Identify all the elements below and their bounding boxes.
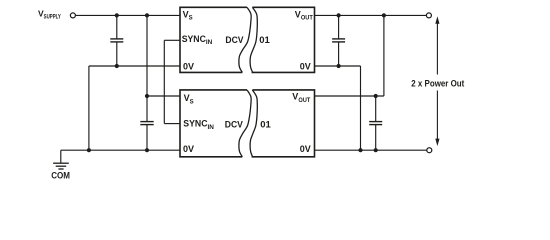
- capacitor C3: [332, 15, 345, 66]
- node Vs2-C2: [145, 94, 149, 98]
- svg-text:01: 01: [260, 119, 271, 130]
- module U2 outline: [180, 90, 315, 157]
- module U2 break: [239, 90, 257, 157]
- node Vout-C3: [337, 13, 341, 17]
- svg-text:01: 01: [259, 35, 270, 46]
- svg-text:2 x Power Out: 2 x Power Out: [411, 79, 464, 89]
- wire U2 Vout link: [315, 15, 384, 96]
- wire Vout rail: [315, 14, 427, 16]
- node Vout2-C4: [374, 94, 378, 98]
- capacitor C2: [140, 96, 153, 150]
- svg-text:0V: 0V: [300, 62, 311, 72]
- node 0Vout-U1: [358, 148, 362, 152]
- svg-text:COM: COM: [51, 170, 70, 180]
- capacitor C4: [369, 96, 382, 150]
- svg-text:0V: 0V: [183, 144, 194, 154]
- wire sync link: [164, 40, 180, 123]
- wire supply rail: [76, 14, 180, 16]
- wire U2 Vs feed: [147, 15, 180, 96]
- node com-C2: [145, 148, 149, 152]
- capacitor C1: [110, 15, 123, 66]
- svg-text:0V: 0V: [300, 144, 311, 154]
- terminal VSUPPLY: [70, 13, 75, 18]
- terminal out bottom: [427, 148, 432, 153]
- node C3-0V: [337, 64, 341, 68]
- wire U1 0V right: [315, 66, 361, 150]
- module U1 break: [239, 7, 257, 72]
- wire 0V common: [61, 150, 180, 163]
- node supply-C1: [115, 13, 119, 17]
- svg-text:DCV: DCV: [225, 119, 244, 130]
- svg-text:0V: 0V: [183, 62, 194, 72]
- module U1 outline: [180, 7, 315, 72]
- terminal out top: [426, 13, 431, 18]
- node Vout-U2: [382, 13, 386, 17]
- svg-text:DCV: DCV: [225, 35, 244, 46]
- node com-U1: [87, 148, 91, 152]
- ground COM: [53, 163, 69, 169]
- arrow power out: [435, 16, 439, 146]
- wire U1 0V left: [89, 66, 180, 150]
- node supply-U2: [145, 13, 149, 17]
- wire 0V out rail: [315, 149, 427, 151]
- node C1-0V: [115, 64, 119, 68]
- node 0Vout-C4: [374, 148, 378, 152]
